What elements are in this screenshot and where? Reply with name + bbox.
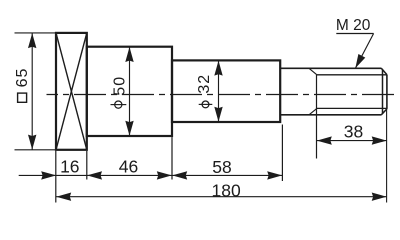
thread run-out diagonal bottom [309, 108, 317, 114]
arrowhead 16 left outside pointing right [41, 171, 56, 179]
full-thread boundary line + extension for 38 dim [316, 75, 318, 159]
square symbol of label 65 [18, 93, 27, 102]
arrowhead square65 down [28, 135, 36, 150]
shank + thread major diameter outline top [280, 67, 381, 69]
M20 leader shelf [336, 33, 373, 35]
flat-indication cross diagonal 1 [56, 33, 87, 150]
svg-text:180: 180 [211, 180, 240, 200]
flat-indication cross diagonal 2 [56, 33, 87, 150]
dimension line phi50 [129, 47, 131, 136]
dimension line phi32 [218, 60, 220, 122]
thread minor diameter line bottom [317, 107, 387, 109]
thread minor diameter line top [317, 74, 387, 76]
M20 leader line [356, 34, 374, 68]
extension line right end continuing down to 180 dim [386, 109, 388, 203]
extension line below phi50 right edge [171, 137, 173, 179]
extension line square top left [15, 32, 57, 34]
phi symbol of label 50 [115, 101, 122, 108]
arrowhead 38 right pointing right [372, 136, 387, 144]
arrowhead 46 right pointing right [157, 171, 172, 179]
extension line below square right edge [86, 151, 88, 180]
arrowhead 58 right pointing right [267, 171, 282, 179]
phi32 cylinder section [172, 60, 280, 122]
svg-text:46: 46 [119, 157, 138, 177]
dimension line square 65 [31, 33, 33, 150]
arrowhead 180 left pointing left [56, 193, 71, 201]
extension line below phi32 right edge [281, 125, 283, 182]
arrowhead phi32 down [214, 107, 222, 122]
shank + thread major diameter outline bottom [280, 114, 381, 116]
svg-text:16: 16 [60, 157, 79, 177]
centerline [47, 94, 397, 96]
svg-text:58: 58 [212, 157, 231, 177]
shaft end face [386, 75, 388, 109]
arrowhead phi50 down [125, 121, 133, 136]
arrowhead square65 up [28, 33, 36, 48]
phi50 cylinder section [87, 47, 172, 136]
chamfer start vertical at thread end [382, 69, 384, 114]
arrowhead phi50 up [125, 47, 133, 62]
dimension line 180 [56, 196, 387, 198]
chamfer diagonal bottom [381, 109, 387, 115]
svg-text:50: 50 [112, 76, 129, 96]
phi symbol of label 32 [202, 101, 209, 108]
extension line below square left edge [55, 151, 57, 203]
arrowhead at 87 pointing left [87, 171, 102, 179]
extension line square bottom left [15, 149, 57, 151]
svg-text:32: 32 [196, 74, 213, 94]
arrowhead M20 leader [355, 54, 365, 68]
thread run-out diagonal top [309, 68, 317, 75]
svg-text:38: 38 [344, 122, 363, 142]
svg-text:65: 65 [14, 68, 31, 88]
arrowhead phi32 up [214, 61, 222, 76]
square flange section 16 long, square 65 [56, 33, 87, 150]
dimension row line 16/46/58 [19, 174, 283, 176]
arrowhead 180 right pointing right [372, 193, 387, 201]
dimension line 38 [317, 140, 387, 142]
arrowhead 58 left pointing left [172, 171, 187, 179]
chamfer diagonal top [381, 68, 387, 74]
svg-text:M 20: M 20 [336, 17, 371, 34]
arrowhead 38 left pointing left [317, 136, 332, 144]
